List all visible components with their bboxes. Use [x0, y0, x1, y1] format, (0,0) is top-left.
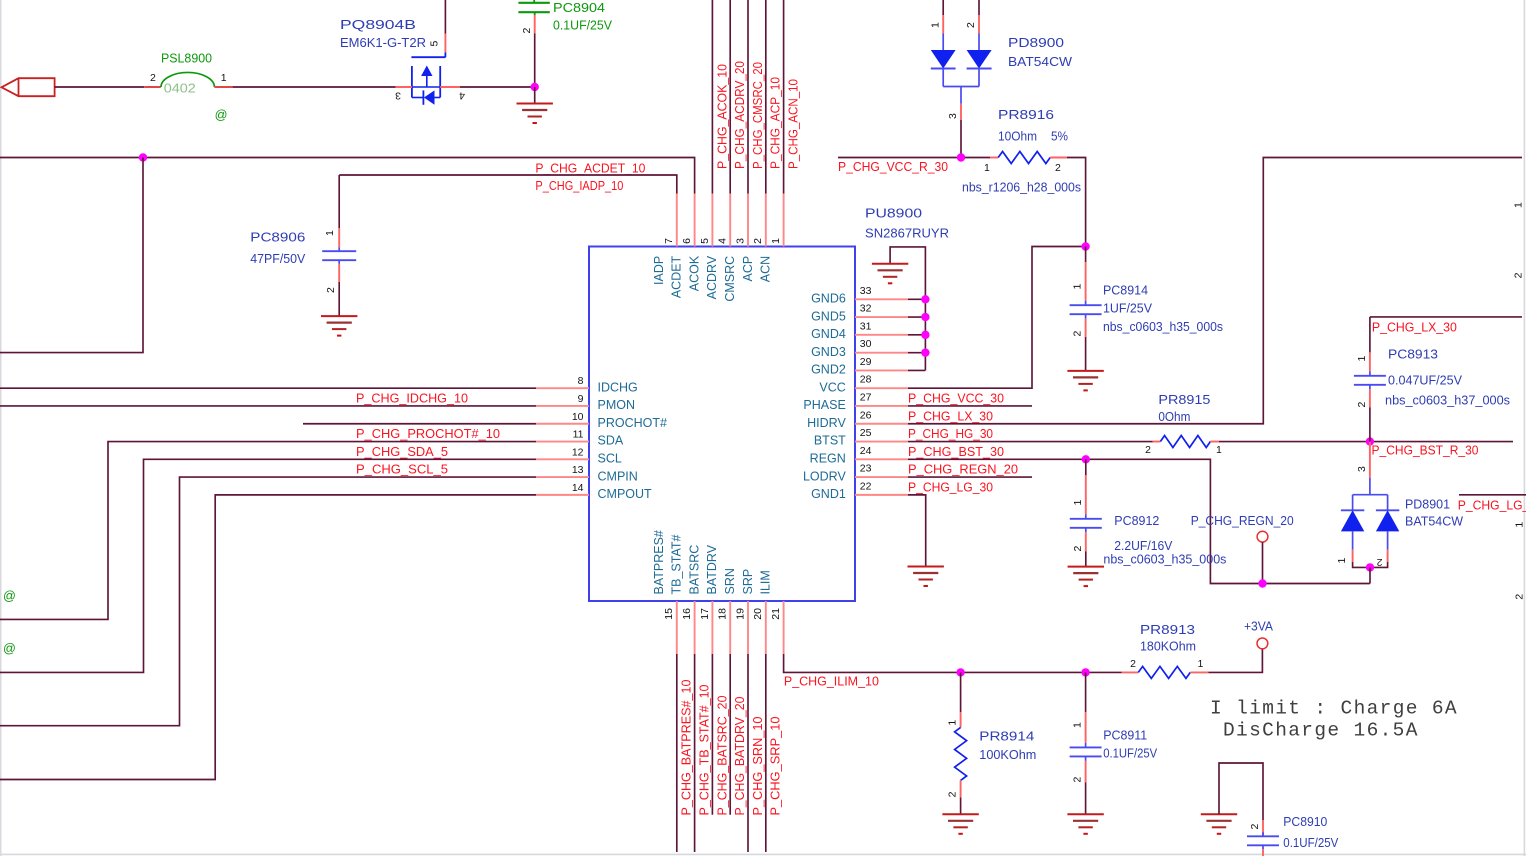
pin 21 of PU8900 [783, 601, 785, 654]
pin 2 of PD8901 [1387, 550, 1389, 562]
pin 6 of PU8900 [694, 194, 696, 247]
pin 5 of PU8900 [711, 194, 713, 247]
svg-text:47PF/50V: 47PF/50V [250, 252, 306, 266]
pin 4 [440, 86, 460, 88]
wire [1353, 562, 1388, 567]
wire [460, 86, 535, 88]
wire (pin 24 - BST) [908, 459, 1370, 583]
svg-text:GND2: GND2 [811, 363, 846, 377]
svg-text:PC8911: PC8911 [1103, 728, 1147, 742]
wire [1369, 408, 1371, 442]
svg-text:19: 19 [734, 608, 746, 620]
svg-text:DisCharge 16.5A: DisCharge 16.5A [1223, 720, 1419, 742]
wire (pin 9) [0, 405, 536, 407]
mosfet body [444, 52, 446, 57]
svg-text:29: 29 [860, 356, 872, 368]
wire [1219, 763, 1263, 820]
svg-text:P_CHG_ACN_10: P_CHG_ACN_10 [786, 79, 801, 169]
svg-text:HIDRV: HIDRV [807, 416, 846, 430]
svg-text:+3VA: +3VA [1244, 620, 1274, 634]
wire [908, 352, 925, 354]
pin 2 of PD8900 [978, 15, 980, 34]
svg-text:nbs_c0603_h35_000s: nbs_c0603_h35_000s [1103, 320, 1223, 334]
svg-text:P_CHG_CMSRC_20: P_CHG_CMSRC_20 [750, 62, 765, 169]
wire (pin 27) [908, 405, 1032, 407]
svg-text:1: 1 [1356, 356, 1368, 362]
svg-text:1: 1 [221, 72, 227, 84]
wire [1085, 337, 1087, 371]
body diode [422, 90, 424, 104]
svg-text:0.1UF/25V: 0.1UF/25V [1283, 836, 1338, 850]
pin 1 of PC8906 [338, 228, 340, 247]
svg-text:2: 2 [1513, 272, 1525, 278]
pin 2 of PC8904 [534, 15, 536, 34]
pin 3 of PD8901 [1369, 442, 1371, 478]
pin 18 of PU8900 [729, 601, 731, 654]
pin 28 of PU8900 [855, 387, 908, 389]
svg-text:SDA: SDA [598, 434, 624, 448]
svg-text:2: 2 [1055, 162, 1061, 174]
svg-text:VCC: VCC [819, 380, 845, 394]
junction [957, 153, 965, 161]
pin 13 of PU8900 [536, 476, 589, 478]
svg-text:SN2867RUYR: SN2867RUYR [865, 227, 949, 241]
svg-text:PR8915: PR8915 [1158, 393, 1210, 407]
wire (net from pin 16) [694, 654, 696, 852]
svg-text:5: 5 [429, 41, 441, 47]
ground [1067, 370, 1103, 372]
svg-text:@: @ [3, 589, 16, 603]
ground [1068, 566, 1104, 568]
svg-text:2.2UF/16V: 2.2UF/16V [1114, 539, 1173, 553]
wire (pin 23 - REGN) [908, 476, 1032, 478]
svg-text:CMSRC: CMSRC [723, 256, 737, 302]
wire (net P_CHG_ACOK_10) [711, 0, 713, 194]
pin 2 of PR8915 [1153, 441, 1161, 443]
junction [921, 295, 929, 303]
svg-text:27: 27 [860, 391, 872, 403]
wire (VCC pin 28) [908, 247, 1086, 389]
pin 1 of PR8916 [990, 157, 998, 159]
svg-text:PHASE: PHASE [803, 398, 845, 412]
pin 1 of PR8914 [960, 712, 962, 727]
svg-text:P_CHG_BATSRC_20: P_CHG_BATSRC_20 [714, 696, 729, 816]
svg-text:PC8906: PC8906 [250, 231, 305, 245]
svg-text:ACP: ACP [741, 256, 755, 282]
svg-text:P_CHG_LX_30: P_CHG_LX_30 [908, 409, 993, 423]
pin 11 of PU8900 [536, 441, 589, 443]
wire [55, 86, 145, 88]
pin 2 of PC8910 [1262, 820, 1264, 836]
pin 1 of PSL8900 [214, 86, 232, 88]
svg-text:PD8901: PD8901 [1405, 498, 1450, 512]
svg-text:2: 2 [752, 238, 764, 244]
junction [531, 83, 539, 91]
svg-text:1: 1 [1072, 722, 1084, 728]
wire [1262, 542, 1264, 583]
ground (IC GND pins) [890, 247, 925, 371]
svg-text:P_CHG_ILIM_10: P_CHG_ILIM_10 [784, 675, 879, 689]
wire [1369, 567, 1371, 583]
svg-text:GND5: GND5 [811, 309, 846, 323]
svg-text:PR8916: PR8916 [998, 108, 1054, 122]
svg-text:0Ohm: 0Ohm [1158, 410, 1190, 424]
svg-text:P_CHG_LG_30: P_CHG_LG_30 [908, 480, 993, 494]
wire (net from pin 20) [765, 654, 767, 852]
svg-text:1UF/25V: 1UF/25V [1103, 302, 1153, 316]
wire (P_CHG_LX_30 right) [1370, 316, 1522, 318]
svg-text:10Ohm: 10Ohm [998, 130, 1037, 144]
svg-text:P_CHG_SRN_10: P_CHG_SRN_10 [750, 717, 765, 816]
pin 23 of PU8900 [855, 476, 908, 478]
pin 4 of PU8900 [729, 194, 731, 247]
pin 1 of PC8914 [1085, 262, 1087, 301]
svg-text:IADP: IADP [652, 256, 666, 285]
pin 30 of PU8900 [855, 352, 908, 354]
pin 2 of PC8911 [1085, 761, 1087, 783]
pin 26 of PU8900 [855, 423, 908, 425]
pin 2 of PU8900 [765, 194, 767, 247]
svg-text:ILIM: ILIM [759, 570, 773, 594]
svg-text:24: 24 [860, 445, 872, 457]
op-amp/IC U PU8900 SN2867RUYR [589, 247, 855, 602]
svg-text:P_CHG_BST_R_30: P_CHG_BST_R_30 [1372, 444, 1479, 458]
pin 2 of PC8906 [338, 264, 340, 282]
svg-text:22: 22 [860, 480, 872, 492]
svg-text:28: 28 [860, 374, 872, 386]
svg-text:@: @ [215, 108, 228, 122]
pin 2 of PSL8900 [144, 86, 161, 88]
capacitor PC8913 [1369, 317, 1371, 353]
pin 2 of PC8913 [1369, 389, 1371, 407]
pin 19 of PU8900 [747, 601, 749, 654]
svg-text:BTST: BTST [814, 434, 846, 448]
pin 10 of PU8900 [536, 423, 589, 425]
svg-text:P_CHG_SCL_5: P_CHG_SCL_5 [356, 463, 448, 477]
svg-text:@: @ [3, 642, 16, 656]
wire [1085, 783, 1087, 815]
wire [1085, 552, 1087, 567]
wire (pin 25 - HG) [908, 441, 1153, 443]
svg-text:2: 2 [1072, 546, 1084, 552]
svg-text:PU8900: PU8900 [865, 207, 922, 221]
wire [908, 298, 925, 300]
svg-text:BAT54CW: BAT54CW [1405, 515, 1463, 529]
svg-text:7: 7 [663, 238, 675, 244]
svg-text:PC8913: PC8913 [1388, 348, 1438, 362]
svg-text:GND4: GND4 [811, 327, 846, 341]
ground [942, 813, 978, 815]
junction [921, 348, 929, 356]
capacitor PC8914 [1085, 247, 1087, 263]
wire (P_CHG_VCC_R_30) [838, 157, 990, 159]
wire [233, 86, 396, 88]
svg-text:P_CHG_ACOK_10: P_CHG_ACOK_10 [714, 64, 729, 169]
junction [921, 313, 929, 321]
pin 12 of PU8900 [536, 458, 589, 460]
svg-text:BATSRC: BATSRC [687, 545, 701, 595]
svg-text:EM6K1-G-T2R: EM6K1-G-T2R [340, 36, 426, 50]
svg-text:12: 12 [572, 446, 584, 458]
svg-text:2: 2 [1249, 824, 1261, 830]
ground [1067, 813, 1103, 815]
pin 2 of PR8913 [1122, 671, 1139, 673]
wire (P_CHG_ILIM_10) [784, 654, 1122, 672]
capacitor PC8904 [533, 0, 535, 3]
svg-text:PSL8900: PSL8900 [161, 51, 212, 65]
pin 1 of PD8901 [1352, 550, 1354, 562]
svg-text:P_CHG_ACDET_10: P_CHG_ACDET_10 [535, 161, 645, 175]
wire (net from pin 17) [711, 654, 713, 815]
pin 7 of PU8900 [676, 194, 678, 247]
pin 3 [396, 86, 412, 88]
pin 16 of PU8900 [694, 601, 696, 654]
svg-text:14: 14 [572, 482, 584, 494]
pin 15 of PU8900 [676, 601, 678, 654]
svg-text:GND1: GND1 [811, 487, 846, 501]
svg-text:23: 23 [860, 463, 872, 475]
svg-text:REGN: REGN [810, 452, 846, 466]
svg-text:2: 2 [1072, 331, 1084, 337]
svg-text:PD8900: PD8900 [1008, 36, 1064, 50]
wire [960, 120, 962, 158]
svg-text:P_CHG_BST_30: P_CHG_BST_30 [908, 445, 1004, 459]
svg-text:PR8914: PR8914 [979, 730, 1034, 744]
svg-text:ACDRV: ACDRV [705, 255, 719, 299]
svg-text:PQ8904B: PQ8904B [340, 18, 416, 32]
pin 25 of PU8900 [855, 441, 908, 443]
svg-text:3: 3 [1356, 466, 1368, 472]
svg-text:26: 26 [860, 409, 872, 421]
svg-text:2: 2 [1356, 402, 1368, 408]
svg-text:SRN: SRN [723, 568, 737, 594]
pin 3 of PU8900 [747, 194, 749, 247]
svg-text:10: 10 [572, 411, 584, 423]
svg-text:TB_STAT#: TB_STAT# [670, 534, 684, 594]
wire [1209, 649, 1263, 673]
junction [1081, 242, 1089, 250]
svg-text:P_CHG_SRP_10: P_CHG_SRP_10 [768, 717, 783, 816]
wire [978, 0, 980, 15]
wire [960, 798, 962, 815]
wire (net P_CHG_ACN_10) [783, 0, 785, 194]
svg-text:31: 31 [860, 320, 872, 332]
ground [321, 315, 357, 317]
pin 22 of PU8900 [855, 494, 908, 496]
svg-text:ACDET: ACDET [670, 255, 684, 298]
svg-text:180KOhm: 180KOhm [1140, 640, 1196, 654]
svg-text:1: 1 [1513, 202, 1525, 208]
wire (net to pin 6, ACDET) [0, 158, 695, 194]
svg-text:2: 2 [965, 22, 977, 28]
capacitor PC8912 [1085, 459, 1087, 475]
pin 29 of PU8900 [855, 369, 908, 371]
pin 1 of PC8912 [1085, 475, 1087, 514]
svg-text:P_CHG_REGN_20: P_CHG_REGN_20 [908, 463, 1018, 477]
svg-text:1: 1 [1216, 444, 1222, 456]
wire (pin 12) [0, 459, 536, 672]
svg-text:1: 1 [1336, 558, 1348, 564]
svg-text:1: 1 [1514, 522, 1526, 528]
svg-text:SRP: SRP [741, 569, 755, 595]
junction [956, 668, 964, 676]
svg-text:15: 15 [663, 608, 675, 620]
svg-text:100KOhm: 100KOhm [979, 748, 1036, 762]
wire [908, 369, 925, 371]
svg-text:2: 2 [521, 28, 533, 34]
svg-text:GND3: GND3 [811, 345, 846, 359]
pin 2 of PC8912 [1085, 532, 1087, 551]
ground [908, 566, 944, 568]
svg-text:2: 2 [1514, 594, 1526, 600]
ground (PC8910) [1201, 813, 1237, 815]
pin 1 of PU8900 [783, 194, 785, 247]
pin 27 of PU8900 [855, 405, 908, 407]
svg-text:2: 2 [325, 287, 337, 293]
svg-text:PROCHOT#: PROCHOT# [598, 416, 668, 430]
wire (pin 5 to top edge) [444, 0, 446, 34]
svg-text:18: 18 [717, 608, 729, 620]
pin 17 of PU8900 [711, 601, 713, 654]
svg-text:IDCHG: IDCHG [598, 380, 638, 394]
svg-text:1: 1 [947, 720, 959, 726]
pin 32 of PU8900 [855, 316, 908, 318]
svg-text:2: 2 [1072, 777, 1084, 783]
wire (pin 22 - GND1) [908, 495, 926, 567]
pin 33 of PU8900 [855, 298, 908, 300]
pin 1 of PD8900 [942, 15, 944, 34]
capacitor PC8911 [1085, 672, 1087, 712]
svg-text:13: 13 [572, 464, 584, 476]
svg-text:I limit : Charge 6A: I limit : Charge 6A [1210, 698, 1458, 720]
svg-text:P_CHG_REGN_20: P_CHG_REGN_20 [1191, 514, 1294, 528]
svg-text:3: 3 [734, 238, 746, 244]
junction [139, 153, 147, 161]
wire (pin 11) [0, 442, 536, 620]
svg-text:P_CHG_IDCHG_10: P_CHG_IDCHG_10 [356, 392, 468, 406]
pin 1 of PR8915 [1210, 441, 1219, 443]
wire (pin 8) [0, 387, 536, 389]
svg-text:1: 1 [984, 162, 990, 174]
svg-text:3: 3 [947, 113, 959, 119]
svg-text:P_CHG_ACP_10: P_CHG_ACP_10 [768, 77, 783, 169]
svg-text:P_CHG_LG_30: P_CHG_LG_30 [1458, 499, 1526, 513]
pin 2 of PC8914 [1085, 319, 1087, 337]
wire (pin 13) [0, 477, 536, 726]
svg-text:1: 1 [1072, 500, 1084, 506]
svg-text:CMPOUT: CMPOUT [598, 487, 653, 501]
wire (net from pin 19) [747, 654, 749, 852]
junction [1366, 563, 1374, 571]
junction [1258, 579, 1266, 587]
svg-text:2: 2 [947, 791, 959, 797]
wire [1067, 158, 1086, 247]
svg-text:P_CHG_SDA_5: P_CHG_SDA_5 [356, 445, 448, 459]
svg-text:2: 2 [1145, 444, 1151, 456]
svg-text:17: 17 [699, 608, 711, 620]
svg-text:5: 5 [699, 238, 711, 244]
pin 24 of PU8900 [855, 458, 908, 460]
svg-text:1: 1 [929, 22, 941, 28]
junction [921, 331, 929, 339]
junction [1366, 437, 1374, 445]
pin 1 of PR8913 [1190, 671, 1208, 673]
pin 9 of PU8900 [536, 405, 589, 407]
svg-text:P_CHG_LX_30: P_CHG_LX_30 [1372, 320, 1457, 334]
svg-text:20: 20 [752, 608, 764, 620]
svg-text:25: 25 [860, 427, 872, 439]
svg-text:SCL: SCL [598, 452, 622, 466]
capacitor PC8906 [338, 175, 340, 228]
svg-text:0402: 0402 [164, 82, 196, 96]
svg-text:1: 1 [1198, 658, 1204, 670]
svg-text:0.1UF/25V: 0.1UF/25V [553, 19, 613, 33]
svg-text:GND6: GND6 [811, 292, 846, 306]
svg-text:5%: 5% [1051, 130, 1068, 144]
svg-text:P_CHG_PROCHOT#_10: P_CHG_PROCHOT#_10 [356, 427, 500, 441]
svg-text:PC8904: PC8904 [553, 1, 605, 15]
wire [0, 158, 143, 353]
wire [1219, 441, 1513, 443]
svg-text:1: 1 [324, 230, 336, 236]
pin 2 of PR8916 [1050, 157, 1067, 159]
svg-text:ACN: ACN [759, 256, 773, 282]
wire (pin 26 - LX) [908, 158, 1522, 424]
pin 3 of PD8900 [960, 104, 962, 120]
svg-text:P_CHG_HG_30: P_CHG_HG_30 [908, 427, 993, 441]
svg-text:nbs_c0603_h35_000s: nbs_c0603_h35_000s [1103, 553, 1226, 567]
svg-text:BATPRES#: BATPRES# [652, 530, 666, 594]
pin 2 of PR8914 [960, 780, 962, 797]
svg-text:P_CHG_TB_STAT#_10: P_CHG_TB_STAT#_10 [697, 685, 712, 816]
svg-text:P_CHG_BATPRES#_10: P_CHG_BATPRES#_10 [679, 680, 694, 816]
svg-text:0.047UF/25V: 0.047UF/25V [1388, 374, 1463, 388]
junction [1081, 668, 1089, 676]
svg-text:P_CHG_VCC_R_30: P_CHG_VCC_R_30 [838, 160, 948, 174]
wire [534, 34, 536, 88]
svg-text:2: 2 [1377, 556, 1383, 568]
svg-text:PR8913: PR8913 [1140, 623, 1195, 637]
svg-text:2: 2 [150, 72, 156, 84]
svg-text:1: 1 [1072, 284, 1084, 290]
junction [1082, 455, 1090, 463]
svg-text:P_CHG_BATDRV_20: P_CHG_BATDRV_20 [732, 697, 747, 816]
svg-text:PMON: PMON [598, 398, 636, 412]
wire (pin 14) [0, 495, 536, 780]
wire [908, 316, 925, 318]
ground [534, 87, 536, 104]
svg-text:PC8910: PC8910 [1283, 815, 1327, 829]
wire (net from pin 18) [729, 654, 731, 815]
wire (net from pin 15) [676, 654, 678, 852]
wire (net P_CHG_ACDRV_20) [729, 0, 731, 194]
svg-text:21: 21 [770, 608, 782, 620]
svg-text:P_CHG_VCC_30: P_CHG_VCC_30 [908, 392, 1004, 406]
pin 20 of PU8900 [765, 601, 767, 654]
svg-text:BATDRV: BATDRV [705, 544, 719, 594]
svg-text:3: 3 [395, 90, 401, 102]
pin 1 of PC8913 [1369, 352, 1371, 371]
svg-text:P_CHG_IADP_10: P_CHG_IADP_10 [535, 179, 623, 193]
wire [942, 0, 944, 15]
svg-text:BAT54CW: BAT54CW [1008, 55, 1072, 69]
off-page connector (input, left) [2, 78, 55, 96]
svg-text:33: 33 [860, 285, 872, 297]
svg-text:16: 16 [681, 608, 693, 620]
pin 1 of PC8911 [1085, 712, 1087, 743]
svg-text:PC8912: PC8912 [1114, 514, 1159, 528]
svg-text:2: 2 [1130, 658, 1136, 670]
